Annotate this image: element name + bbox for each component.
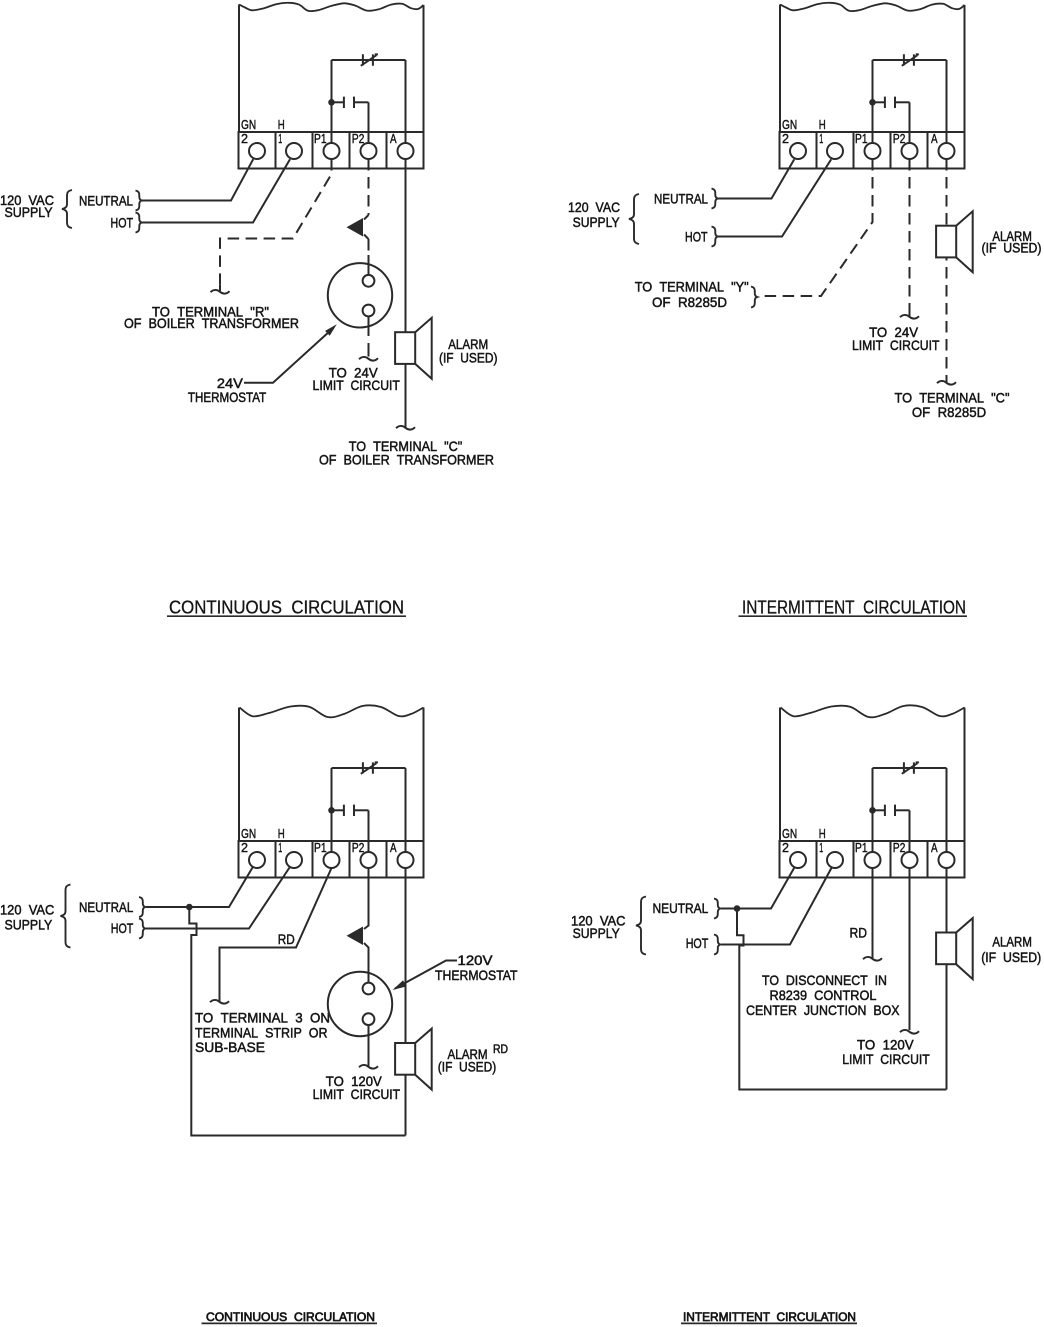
- svg-text:INTERMITTENT CIRCULATION: INTERMITTENT CIRCULATION: [742, 598, 966, 618]
- BR: relay contact: [885, 805, 895, 816]
- svg-text:2: 2: [782, 841, 789, 855]
- TL: relay contact: [344, 97, 354, 108]
- TL: strip divider 2: [312, 132, 314, 169]
- svg-text:CONTINUOUS CIRCULATION: CONTINUOUS CIRCULATION: [206, 1312, 375, 1324]
- TL: dash below thermostat: [368, 343, 370, 357]
- svg-text:OF R8285D: OF R8285D: [652, 294, 727, 310]
- TR: junction dot on P1 riser: [869, 99, 876, 106]
- TR: wire end squiggle (terminal C): [937, 381, 956, 385]
- BL: control box torn-edge top: [240, 705, 424, 717]
- TL: arrow stubs: [364, 215, 369, 239]
- BL: wire A down through alarm to loop: [405, 868, 407, 1136]
- TL: hot brace: [136, 213, 142, 233]
- TR: wire stub at terminal C: [946, 375, 948, 382]
- BL: wire junction to contact: [332, 809, 344, 811]
- TL: limit switch (breaker): [361, 54, 378, 66]
- svg-text:A: A: [390, 841, 397, 855]
- BL: neutral brace: [139, 897, 145, 917]
- title underline left: [167, 615, 406, 617]
- svg-text:NEUTRAL: NEUTRAL: [653, 900, 709, 916]
- BR: wire end squiggle (disconnect): [863, 957, 882, 961]
- BR: terminal 2 screw: [790, 852, 806, 868]
- TR: wire P1 corner to A corner: [873, 59, 947, 61]
- TL: box left side: [238, 5, 240, 133]
- TR: wire down to terminal P2: [909, 102, 911, 143]
- svg-text:TERMINAL STRIP OR: TERMINAL STRIP OR: [195, 1024, 328, 1040]
- TR: terminal A screw: [939, 143, 955, 159]
- TR: hot wire to terminal 1: [718, 159, 831, 236]
- svg-text:120 VAC: 120 VAC: [0, 902, 54, 918]
- TL: alarm speaker: [415, 318, 432, 379]
- BL: box left side: [238, 708, 240, 842]
- TL: wire down to terminal A: [405, 60, 407, 143]
- TR: strip divider 1: [816, 132, 818, 169]
- svg-text:(IF USED): (IF USED): [439, 350, 498, 366]
- TR: dashed wire P1 to terminal Y: [760, 159, 873, 296]
- TL: control box torn-edge top: [239, 3, 424, 11]
- TR: neutral wire to terminal 2: [718, 159, 794, 198]
- svg-text:THERMOSTAT: THERMOSTAT: [435, 967, 518, 983]
- svg-text:1: 1: [278, 841, 282, 855]
- TR: wire P1 riser: [872, 60, 874, 143]
- TL: wire A to terminal C: [405, 159, 407, 427]
- TL: wire P1 riser: [331, 60, 333, 143]
- svg-text:THERMOSTAT: THERMOSTAT: [188, 389, 267, 405]
- svg-text:TO TERMINAL "C": TO TERMINAL "C": [895, 389, 1010, 405]
- BL: hot wire to terminal 1: [146, 867, 290, 929]
- TR: strip divider 3: [890, 132, 892, 169]
- BL: hot brace: [139, 919, 145, 939]
- svg-text:OF R8285D: OF R8285D: [912, 404, 986, 420]
- TL: neutral wire to terminal 2: [142, 159, 253, 200]
- BL: terminal P2 screw: [361, 852, 377, 868]
- BR: wire end squiggle (limit): [900, 1030, 919, 1034]
- svg-text:SUPPLY: SUPPLY: [5, 916, 53, 932]
- TL: neutral brace: [136, 191, 142, 211]
- svg-text:TO TERMINAL 3 ON: TO TERMINAL 3 ON: [195, 1009, 330, 1025]
- BL: wire P1 corner to A corner: [332, 767, 406, 769]
- svg-text:2: 2: [241, 841, 248, 855]
- BL: wire end squiggle (terminal 3): [210, 1000, 229, 1004]
- svg-text:P1: P1: [855, 132, 868, 146]
- BR: junction dot on P1 riser: [869, 807, 876, 814]
- TL: wire P1 corner to A corner: [332, 59, 406, 61]
- svg-text:OF BOILER TRANSFORMER: OF BOILER TRANSFORMER: [319, 451, 494, 467]
- TL: terminal strip: [239, 132, 424, 169]
- BR: terminal strip: [780, 841, 965, 878]
- TL: wire end squiggle (limit circuit): [359, 357, 378, 361]
- TL: flow arrowhead: [347, 218, 364, 237]
- svg-text:120 VAC: 120 VAC: [568, 199, 620, 215]
- BR: terminal P1 screw: [865, 852, 881, 868]
- svg-text:HOT: HOT: [685, 229, 708, 245]
- svg-text:GN: GN: [782, 827, 797, 841]
- BL: strip divider 3: [349, 841, 351, 878]
- TR: strip divider 2: [853, 132, 855, 169]
- BL: wire P2 to thermostat: [364, 868, 369, 984]
- TL: thermostat top port: [363, 275, 375, 287]
- TL: wire stub into top port: [368, 255, 370, 276]
- BL: wire down to terminal A: [405, 768, 407, 852]
- svg-text:H: H: [278, 827, 285, 841]
- svg-text:SUPPLY: SUPPLY: [5, 204, 54, 220]
- svg-text:120V: 120V: [458, 952, 494, 968]
- TL: 24V thermostat body: [328, 263, 392, 327]
- svg-text:1: 1: [819, 841, 823, 855]
- svg-text:(IF USED): (IF USED): [982, 240, 1042, 256]
- svg-text:P2: P2: [893, 841, 906, 855]
- BR: supply brace: [636, 897, 646, 955]
- TR: alarm speaker: [956, 211, 973, 272]
- BL: terminal P1 screw: [324, 852, 340, 868]
- TL: wire stub at terminal R: [219, 285, 221, 291]
- svg-text:LIMIT CIRCUIT: LIMIT CIRCUIT: [313, 1086, 401, 1102]
- BR: wire P2 to 120V limit circuit: [909, 868, 911, 1030]
- TL: dashed wire P1 to terminal R: [220, 159, 332, 285]
- TL: wire junction to contact: [332, 101, 344, 103]
- caption underline left: [202, 1322, 378, 1324]
- TR: terminal strip: [780, 132, 965, 169]
- TL: terminal 1 screw: [286, 143, 302, 159]
- TL: thermostat leader arrowhead: [325, 324, 337, 335]
- BL: junction dot on neutral: [186, 904, 193, 911]
- BR: terminal P2 screw: [902, 852, 918, 868]
- BL: strip divider 4: [386, 841, 388, 878]
- BL: strip divider 1: [275, 841, 277, 878]
- BR: neutral wire to terminal 2: [721, 868, 794, 909]
- TR: wire junction to contact: [873, 101, 885, 103]
- BL: wire to 120V limit circuit: [368, 1025, 370, 1066]
- BR: wire A down through alarm to loop: [946, 868, 948, 1090]
- BR: strip divider 1: [816, 841, 818, 878]
- TL: supply brace: [62, 190, 72, 228]
- svg-text:NEUTRAL: NEUTRAL: [79, 193, 133, 209]
- svg-text:RD: RD: [278, 931, 295, 947]
- BL: box right side: [423, 708, 425, 842]
- TL: wire down to terminal P2: [368, 102, 370, 143]
- TR: wire stub at limit circuit: [909, 309, 911, 316]
- svg-text:TO DISCONNECT IN: TO DISCONNECT IN: [762, 972, 887, 988]
- BL: 120V thermostat body: [328, 972, 392, 1036]
- svg-text:H: H: [819, 118, 826, 132]
- TR: strip divider 4: [927, 132, 929, 169]
- BR: terminal A screw: [939, 852, 955, 868]
- TL: strip divider 3: [349, 132, 351, 169]
- svg-text:P2: P2: [352, 132, 365, 146]
- BR: wire P1 corner to A corner: [873, 767, 947, 769]
- title underline right: [739, 615, 968, 617]
- BR: wire contact to P2 corner: [895, 809, 910, 811]
- BR: junction dot on neutral: [734, 905, 741, 912]
- BL: RD wire P1 to terminal 3: [220, 868, 332, 1001]
- svg-text:P2: P2: [352, 841, 365, 855]
- BL: alarm speaker: [415, 1029, 432, 1090]
- BR: terminal 1 screw: [827, 852, 843, 868]
- svg-text:TO TERMINAL "Y": TO TERMINAL "Y": [635, 279, 749, 295]
- BL: thermostat leader arrowhead: [393, 980, 407, 990]
- svg-text:H: H: [278, 118, 285, 132]
- TL: wire stub out of bottom port: [368, 316, 370, 336]
- BR: strip divider 4: [927, 841, 929, 878]
- TR: terminal Y brace: [751, 287, 757, 308]
- svg-text:2: 2: [241, 132, 248, 146]
- BR: strip divider 2: [853, 841, 855, 878]
- svg-text:SUB-BASE: SUB-BASE: [195, 1039, 265, 1055]
- TL: strip divider 1: [275, 132, 277, 169]
- svg-text:HOT: HOT: [111, 920, 134, 936]
- BL: wire contact to P2 corner: [354, 809, 369, 811]
- BR: wire down to terminal A: [946, 768, 948, 852]
- svg-text:P2: P2: [893, 132, 906, 146]
- svg-text:OF BOILER TRANSFORMER: OF BOILER TRANSFORMER: [124, 315, 299, 331]
- TR: dashed wire A to terminal C: [946, 159, 948, 375]
- BL: wire end squiggle (limit): [359, 1065, 378, 1069]
- BL: supply brace: [61, 885, 71, 948]
- TR: wire contact to P2 corner: [895, 101, 910, 103]
- TR: relay contact: [885, 97, 895, 108]
- BL: terminal strip: [239, 841, 424, 878]
- TL: terminal 2 screw: [249, 143, 265, 159]
- svg-text:NEUTRAL: NEUTRAL: [654, 191, 708, 207]
- TL: dashed wire P2 down: [368, 159, 370, 215]
- BL: neutral return loop with crossover jog: [189, 907, 405, 1136]
- svg-text:HOT: HOT: [111, 215, 134, 231]
- BL: junction dot on P1 riser: [328, 807, 335, 814]
- BR: alarm speaker: [956, 918, 973, 979]
- TR: control box torn-edge top: [780, 3, 965, 11]
- BL: terminal A screw: [398, 852, 414, 868]
- TR: neutral brace: [712, 189, 718, 209]
- BR: wire junction to contact: [873, 809, 885, 811]
- svg-text:R8239 CONTROL: R8239 CONTROL: [770, 987, 877, 1003]
- svg-text:NEUTRAL: NEUTRAL: [79, 899, 133, 915]
- TL: terminal P1 screw: [324, 143, 340, 159]
- BL: thermostat leader line: [395, 961, 457, 989]
- TL: thermostat leader line: [244, 331, 331, 383]
- svg-text:INTERMITTENT CIRCULATION: INTERMITTENT CIRCULATION: [683, 1312, 856, 1324]
- svg-text:RD: RD: [493, 1044, 508, 1056]
- TL: dashed wire into thermostat: [368, 239, 370, 255]
- svg-text:(IF USED): (IF USED): [981, 949, 1041, 965]
- TR: box left side: [779, 5, 781, 133]
- svg-text:CENTER JUNCTION BOX: CENTER JUNCTION BOX: [746, 1002, 900, 1018]
- TR: wire down to terminal A: [946, 60, 948, 143]
- TL: junction dot on P1 riser: [328, 99, 335, 106]
- BL: strip divider 2: [312, 841, 314, 878]
- TR: terminal 2 screw: [790, 143, 806, 159]
- svg-text:A: A: [390, 132, 397, 146]
- BR: box right side: [964, 708, 966, 842]
- BR: neutral brace: [714, 899, 720, 919]
- TR: terminal P2 screw: [902, 143, 918, 159]
- BR: neutral return loop with crossover jog: [737, 909, 947, 1090]
- TL: strip divider 4: [386, 132, 388, 169]
- BL: thermostat bottom port: [363, 1013, 375, 1025]
- svg-text:LIMIT CIRCUIT: LIMIT CIRCUIT: [852, 337, 940, 353]
- BL: wire P1 riser: [331, 768, 333, 852]
- TR: supply brace: [629, 194, 639, 244]
- TR: wire end squiggle (limit): [900, 315, 919, 319]
- svg-text:(IF USED): (IF USED): [438, 1058, 497, 1074]
- svg-text:2: 2: [782, 132, 789, 146]
- BL: relay contact: [344, 805, 354, 816]
- TL: wire contact to P2 corner: [354, 101, 369, 103]
- TR: terminal 1 screw: [827, 143, 843, 159]
- svg-text:HOT: HOT: [686, 935, 709, 951]
- TL: thermostat bottom port: [363, 305, 375, 317]
- TR: dashed wire P2 to 24V limit circuit: [909, 159, 911, 309]
- svg-text:SUPPLY: SUPPLY: [573, 214, 621, 230]
- BR: control box torn-edge top: [781, 705, 965, 717]
- TL: box right side: [423, 5, 425, 132]
- BR: hot wire to terminal 1: [721, 868, 832, 945]
- svg-text:GN: GN: [782, 118, 797, 132]
- svg-text:P1: P1: [314, 132, 327, 146]
- BR: limit switch (breaker): [902, 762, 919, 774]
- BL: limit switch (breaker): [361, 762, 378, 774]
- svg-text:ALARM: ALARM: [992, 933, 1032, 949]
- svg-text:P1: P1: [314, 841, 327, 855]
- svg-text:GN: GN: [241, 827, 256, 841]
- BL: terminal 1 screw: [286, 852, 302, 868]
- BR: RD wire P1 to disconnect: [872, 868, 874, 958]
- BR: strip divider 3: [890, 841, 892, 878]
- BL: wire down to terminal P2: [368, 810, 370, 852]
- BR: hot brace: [714, 935, 720, 955]
- TL: wire end squiggle (terminal C): [396, 426, 415, 430]
- TL: wire end squiggle (terminal R): [211, 290, 230, 294]
- svg-text:CONTINUOUS CIRCULATION: CONTINUOUS CIRCULATION: [169, 598, 404, 618]
- TR: hot brace: [712, 227, 718, 247]
- TL: terminal A screw: [398, 143, 414, 159]
- BL: flow arrowhead: [347, 927, 364, 946]
- svg-text:A: A: [931, 841, 938, 855]
- svg-text:RD: RD: [850, 924, 868, 940]
- TL: hot wire to terminal 1: [142, 159, 290, 222]
- BL: terminal 2 screw: [249, 852, 265, 868]
- TL: terminal P2 screw: [361, 143, 377, 159]
- BR: box left side: [779, 708, 781, 842]
- svg-text:LIMIT CIRCUIT: LIMIT CIRCUIT: [313, 377, 401, 393]
- TR: terminal P1 screw: [865, 143, 881, 159]
- svg-text:1: 1: [819, 132, 823, 146]
- svg-text:SUPPLY: SUPPLY: [573, 925, 621, 941]
- caption underline right: [681, 1322, 857, 1324]
- svg-text:H: H: [819, 827, 826, 841]
- BR: wire down to terminal P2: [909, 810, 911, 852]
- svg-text:1: 1: [278, 132, 282, 146]
- BL: neutral wire to terminal 2: [146, 867, 253, 907]
- TR: box right side: [964, 5, 966, 132]
- svg-text:P1: P1: [855, 841, 868, 855]
- BL: thermostat top port: [363, 983, 375, 995]
- svg-text:A: A: [931, 132, 938, 146]
- TR: limit switch (breaker): [902, 54, 919, 66]
- BR: wire P1 riser: [872, 768, 874, 852]
- svg-text:LIMIT CIRCUIT: LIMIT CIRCUIT: [842, 1051, 930, 1067]
- svg-text:GN: GN: [241, 118, 256, 132]
